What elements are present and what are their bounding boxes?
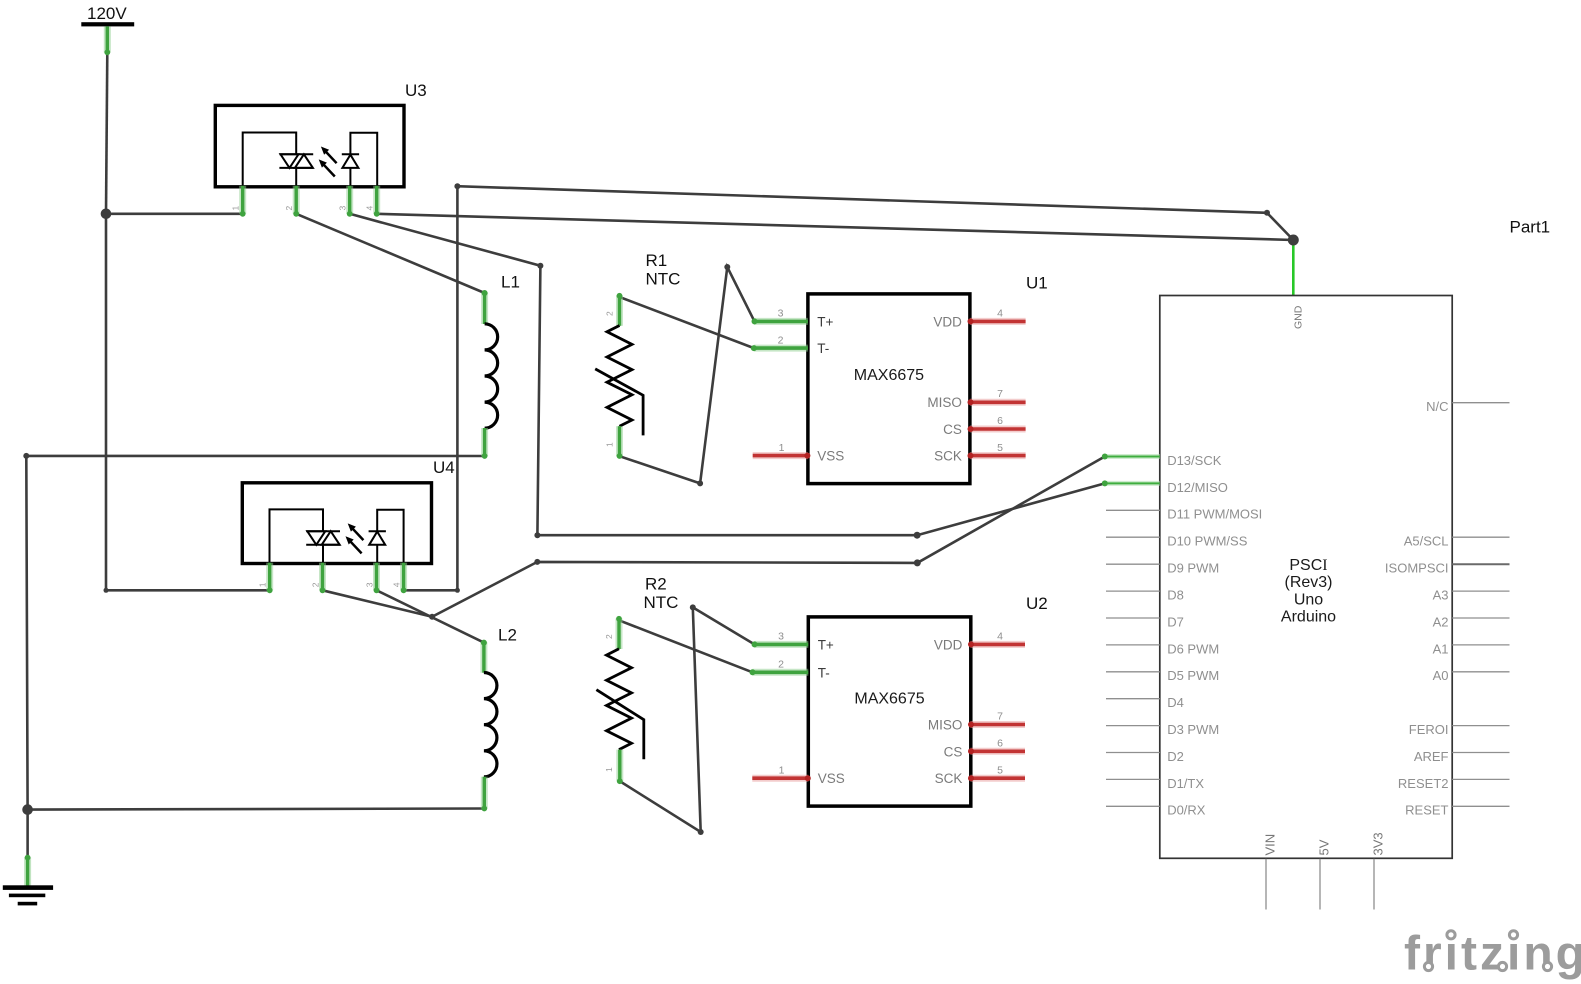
svg-text:RESET2: RESET2 <box>1398 776 1449 791</box>
pin D6 PWM <box>1106 644 1160 646</box>
node corner riser top <box>454 183 460 189</box>
svg-text:3: 3 <box>338 206 348 211</box>
IC U1 MAX6675 <box>753 274 1048 484</box>
pin VDD U1 <box>970 318 1026 325</box>
pin D0/RX <box>1106 805 1160 807</box>
wire GND green to Arduino <box>1292 240 1295 295</box>
svg-text:U1: U1 <box>1026 274 1048 293</box>
wire junction to U3 pin1 <box>106 213 243 216</box>
node T- U1 end <box>751 345 757 351</box>
wire U3 pin4 to GND junction <box>377 214 1294 240</box>
svg-text:D10 PWM/SS: D10 PWM/SS <box>1167 534 1248 549</box>
node U1 VSS term <box>804 453 810 459</box>
arrows U4 <box>351 527 363 540</box>
node D12 end <box>1102 480 1108 486</box>
svg-text:ISOMPSCI: ISOMPSCI <box>1385 561 1449 576</box>
svg-text:D0/RX: D0/RX <box>1167 803 1206 818</box>
svg-text:Arduino: Arduino <box>1281 609 1336 626</box>
node apex R2 <box>690 604 696 610</box>
svg-text:MISO: MISO <box>928 718 963 733</box>
pin VDD U2 <box>970 641 1025 648</box>
wire U3 pin3 to D12/MISO <box>350 214 1105 535</box>
pin D1/TX <box>1106 778 1160 780</box>
svg-text:NTC: NTC <box>646 270 681 289</box>
node T+ U2 end <box>752 641 758 647</box>
wire ground junction to ground symbol <box>26 810 29 858</box>
svg-text:fritzing: fritzing <box>1404 928 1581 981</box>
svg-text:6: 6 <box>997 738 1003 750</box>
svg-text:A2: A2 <box>1433 614 1449 629</box>
svg-text:D11 PWM/MOSI: D11 PWM/MOSI <box>1167 507 1262 522</box>
svg-text:FEROI: FEROI <box>1409 722 1449 737</box>
svg-text:MISO: MISO <box>927 395 962 410</box>
svg-text:D8: D8 <box>1167 588 1184 603</box>
pin D10 PWM/SS <box>1106 536 1160 538</box>
inductor L1 <box>485 273 520 457</box>
node U4 pin2 end <box>320 587 326 593</box>
svg-text:T+: T+ <box>817 314 833 329</box>
node U3 pin1 end <box>240 211 246 217</box>
wire left rail to U4 pin1 <box>106 589 270 592</box>
node U2 SCK term <box>968 775 974 781</box>
wire U4 pin2 to D13/SCK <box>323 457 1105 617</box>
svg-text:T+: T+ <box>818 637 834 652</box>
pins U3 <box>243 186 377 214</box>
Arduino Uno Part1 <box>1160 218 1550 859</box>
wire R1 pin2 to U1 T- <box>620 297 754 348</box>
node U3 pin2 end <box>293 211 299 217</box>
svg-text:3: 3 <box>778 631 784 643</box>
node R1 pin1 end <box>617 453 623 459</box>
node corner left rail <box>104 588 109 593</box>
node U3 pin3 end <box>347 211 353 217</box>
node 120V pin end <box>105 50 110 55</box>
svg-text:A0: A0 <box>1433 668 1449 683</box>
svg-text:MAX6675: MAX6675 <box>854 691 924 708</box>
svg-text:D9 PWM: D9 PWM <box>1167 561 1219 576</box>
svg-text:SCK: SCK <box>934 449 962 464</box>
svg-text:D4: D4 <box>1167 695 1184 710</box>
arrows U3 <box>325 150 337 163</box>
svg-text:2: 2 <box>604 634 614 639</box>
pin CS U1 <box>970 426 1026 433</box>
svg-text:6: 6 <box>997 415 1003 427</box>
svg-text:VIN: VIN <box>1263 834 1278 856</box>
node vertex U4p2 <box>429 614 435 620</box>
svg-text:A5/SCL: A5/SCL <box>1404 534 1449 549</box>
node corner U4p2 wire <box>534 559 540 565</box>
wire R2 pin2 to U2 T- <box>619 620 753 672</box>
node U1 VDD term <box>968 318 974 324</box>
power symbol 120V <box>81 4 134 53</box>
pin VSS U2 <box>752 775 808 782</box>
pins U4 <box>270 563 404 591</box>
node GND junction <box>1288 235 1299 246</box>
node corner U3p3 top <box>537 263 543 269</box>
svg-text:1: 1 <box>604 767 614 772</box>
node R2 pin2 top <box>616 616 622 622</box>
node T+ U1 end <box>752 318 758 324</box>
svg-text:2: 2 <box>284 206 294 211</box>
node U2 CS term <box>968 748 974 754</box>
wire U4 pin4 riser to GND junction <box>404 186 1294 590</box>
wire R2 pin1 to U2 T+ <box>620 607 754 832</box>
svg-text:GND: GND <box>1293 305 1305 329</box>
svg-text:7: 7 <box>997 711 1003 723</box>
pin D8 <box>1106 590 1160 592</box>
node corner GND feed <box>1264 210 1270 216</box>
thermistor R1 <box>595 251 680 456</box>
svg-text:MAX6675: MAX6675 <box>854 367 924 384</box>
svg-text:1: 1 <box>258 582 268 587</box>
optocoupler U3 <box>215 81 426 214</box>
pin D13/SCK <box>1105 454 1160 459</box>
triac U4 <box>306 530 340 532</box>
svg-text:R2: R2 <box>645 575 667 594</box>
wire L1 bottom to ground rail <box>26 456 484 810</box>
node corner R1 foot <box>697 480 703 486</box>
svg-text:AREF: AREF <box>1414 749 1449 764</box>
svg-text:Part1: Part1 <box>1510 218 1551 237</box>
svg-text:4: 4 <box>997 308 1003 320</box>
svg-text:CS: CS <box>944 744 963 759</box>
pin A1 <box>1452 644 1509 646</box>
node U1 CS term <box>968 426 974 432</box>
wire junction down left rail <box>105 214 108 591</box>
svg-text:VDD: VDD <box>934 637 963 652</box>
node R2 pin1 end <box>617 778 623 784</box>
svg-text:1: 1 <box>605 442 615 447</box>
svg-text:D13/SCK: D13/SCK <box>1167 453 1222 468</box>
pin D9 PWM <box>1106 563 1160 565</box>
node U2 VDD term <box>968 641 974 647</box>
svg-text:R1: R1 <box>646 251 668 270</box>
svg-text:L1: L1 <box>501 273 520 292</box>
pin SCK U2 <box>970 775 1025 782</box>
pin MISO U2 <box>970 721 1025 728</box>
svg-text:2: 2 <box>605 311 615 316</box>
svg-text:3: 3 <box>778 308 784 320</box>
svg-text:2: 2 <box>778 659 784 671</box>
svg-text:CS: CS <box>943 422 962 437</box>
node 120V pin end <box>104 49 110 55</box>
svg-text:PSCI: PSCI <box>1289 557 1327 574</box>
node corner riser bottom <box>455 588 460 593</box>
node corner D13 wire <box>914 559 921 566</box>
pin D5 PWM <box>1106 671 1160 673</box>
node junction 120V rail <box>101 209 112 220</box>
pin T- U1 <box>754 345 808 352</box>
svg-text:A3: A3 <box>1433 588 1449 603</box>
node L1 top end <box>482 290 488 296</box>
svg-text:D1/TX: D1/TX <box>1167 776 1204 791</box>
pin 5V <box>1319 859 1321 910</box>
pin VSS U1 <box>753 452 808 459</box>
node U1 MISO term <box>968 399 974 405</box>
node U2 VSS term <box>805 775 811 781</box>
node corner D12 wire <box>914 532 921 539</box>
node U4 pin1 end <box>267 587 273 593</box>
pin FEROI <box>1452 725 1509 727</box>
pin 3V3 <box>1373 859 1375 910</box>
wire U3 pin2 to L1 top <box>296 214 484 293</box>
svg-text:D2: D2 <box>1167 749 1184 764</box>
pin RESET <box>1452 805 1509 807</box>
svg-text:1: 1 <box>779 442 785 454</box>
pin RESET2 <box>1452 778 1509 780</box>
node ground junction <box>22 804 33 815</box>
svg-text:NTC: NTC <box>644 593 679 612</box>
svg-text:T-: T- <box>817 341 829 356</box>
svg-text:5: 5 <box>997 764 1003 776</box>
svg-text:120V: 120V <box>87 4 127 23</box>
svg-text:3V3: 3V3 <box>1371 832 1386 855</box>
svg-text:7: 7 <box>997 388 1003 400</box>
pin T+ U1 <box>754 318 808 325</box>
svg-text:U2: U2 <box>1026 594 1048 613</box>
pin D11 PWM/MOSI <box>1106 509 1160 511</box>
IC U2 MAX6675 <box>752 594 1047 806</box>
svg-text:N/C: N/C <box>1426 399 1448 414</box>
pin ISOMPSCI <box>1452 563 1509 565</box>
svg-text:D3 PWM: D3 PWM <box>1167 722 1219 737</box>
svg-text:T-: T- <box>818 665 830 680</box>
svg-text:A1: A1 <box>1433 641 1449 656</box>
pin A3 <box>1452 590 1509 592</box>
pin N/C <box>1452 402 1509 404</box>
pin T+ U2 <box>755 641 809 648</box>
node apex R1 <box>724 264 730 270</box>
wire U4 pin3 to L2 top <box>377 590 484 642</box>
svg-text:2: 2 <box>778 334 784 346</box>
ground <box>3 857 53 905</box>
pin MISO U1 <box>970 399 1026 406</box>
node D13 end <box>1102 454 1108 460</box>
pin D7 <box>1106 617 1160 619</box>
pin AREF <box>1452 752 1509 754</box>
node L2 bottom end <box>481 806 487 812</box>
inductor L2 <box>484 626 517 809</box>
node U4 pin3 end <box>374 587 380 593</box>
svg-text:5: 5 <box>997 442 1003 454</box>
LED U4 <box>369 530 386 532</box>
svg-text:U3: U3 <box>405 81 427 100</box>
node T- U2 end <box>750 669 756 675</box>
svg-text:1: 1 <box>231 206 241 211</box>
node U2 MISO term <box>968 722 974 728</box>
pin T- U2 <box>753 669 809 676</box>
triac U3 <box>279 153 313 155</box>
svg-text:D6 PWM: D6 PWM <box>1167 641 1219 656</box>
optocoupler U4 <box>242 458 454 590</box>
pin CS U2 <box>970 748 1025 755</box>
pin A2 <box>1452 617 1509 619</box>
node L2 top end <box>481 640 487 646</box>
pin A5/SCL <box>1452 536 1509 538</box>
svg-text:U4: U4 <box>433 458 455 477</box>
LED U3 <box>342 153 359 155</box>
wire 120V down to junction <box>106 53 107 214</box>
wire L2 bottom to ground junction <box>28 809 485 810</box>
svg-text:4: 4 <box>997 631 1003 643</box>
svg-text:SCK: SCK <box>935 771 963 786</box>
node corner U3p3 bottom <box>534 532 540 538</box>
wire R1 pin1 to U1 T+ <box>620 267 755 483</box>
pin SCK U1 <box>970 452 1026 459</box>
svg-text:RESET: RESET <box>1405 803 1448 818</box>
node corner ground rail top <box>23 453 29 459</box>
svg-text:4: 4 <box>391 582 401 587</box>
pin VIN <box>1265 859 1267 910</box>
node GND pin top <box>25 855 31 861</box>
svg-text:2: 2 <box>310 582 320 587</box>
node U3 pin4 end <box>374 211 380 217</box>
svg-text:(Rev3): (Rev3) <box>1284 574 1332 591</box>
svg-text:4: 4 <box>365 206 375 211</box>
svg-text:3: 3 <box>364 582 374 587</box>
pin A0 <box>1452 671 1509 673</box>
thermistor R2 <box>596 575 678 782</box>
svg-text:L2: L2 <box>498 626 517 645</box>
node U4 pin4 end <box>401 587 407 593</box>
svg-text:1: 1 <box>779 764 785 776</box>
pin D4 <box>1106 698 1160 700</box>
node corner R2 foot <box>698 829 704 835</box>
svg-text:VDD: VDD <box>933 314 962 329</box>
pin D2 <box>1106 752 1160 754</box>
svg-text:VSS: VSS <box>817 449 844 464</box>
svg-text:D7: D7 <box>1167 614 1184 629</box>
svg-text:5V: 5V <box>1317 839 1332 855</box>
svg-text:VSS: VSS <box>818 771 845 786</box>
node L1 bottom end <box>482 453 488 459</box>
pin D12/MISO <box>1105 481 1160 486</box>
svg-text:Uno: Uno <box>1294 591 1323 608</box>
node U1 SCK term <box>968 453 974 459</box>
node R1 pin2 top <box>617 293 623 299</box>
pin D3 PWM <box>1106 725 1160 727</box>
svg-text:D5 PWM: D5 PWM <box>1167 668 1219 683</box>
svg-text:D12/MISO: D12/MISO <box>1167 480 1228 495</box>
